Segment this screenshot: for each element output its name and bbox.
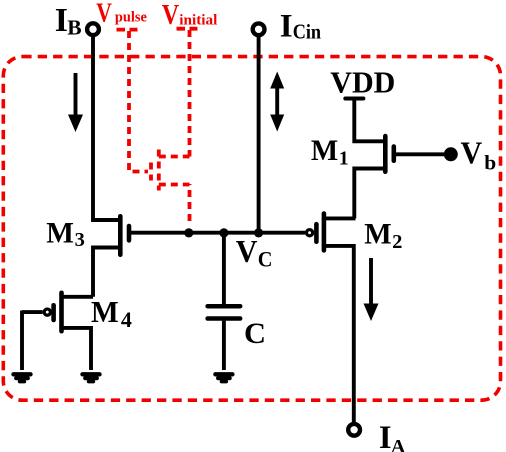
bottom wire bbox=[222, 321, 226, 370]
source stub + wire to ground bbox=[62, 328, 92, 370]
svg-text:V: V bbox=[162, 0, 179, 31]
channel bar M2 bbox=[322, 214, 327, 251]
channel bar M3 bbox=[118, 216, 123, 254]
gate wire to Vb bbox=[396, 152, 447, 156]
source wire down to VC bbox=[188, 184, 192, 221]
svg-text:C: C bbox=[244, 318, 266, 350]
capacitor C bbox=[208, 233, 241, 370]
svg-text:4: 4 bbox=[121, 307, 132, 332]
svg-text:initial: initial bbox=[179, 13, 217, 29]
current arrow IA bbox=[364, 258, 379, 321]
top wire bbox=[222, 233, 226, 304]
label Vb bbox=[461, 135, 497, 174]
Vpulse dashed wire bbox=[117, 30, 149, 172]
terminal IA bbox=[348, 424, 360, 436]
top plate bbox=[208, 304, 241, 309]
dashed switch transistor (red) bbox=[151, 150, 190, 222]
svg-text:M: M bbox=[311, 135, 338, 167]
svg-text:1: 1 bbox=[339, 148, 349, 170]
svg-text:M: M bbox=[46, 218, 74, 250]
drain stub bbox=[159, 155, 190, 159]
drain wire from VDD + stub bbox=[354, 99, 385, 142]
terminal ICin bbox=[253, 23, 265, 35]
label M1 bbox=[311, 135, 349, 169]
bottom plate bbox=[208, 316, 241, 321]
terminal Vb (dot) bbox=[444, 147, 458, 161]
node dot (red switch) bbox=[184, 228, 193, 237]
svg-text:Cin: Cin bbox=[293, 21, 322, 44]
source stub bbox=[159, 183, 190, 187]
terminal IB bbox=[87, 23, 99, 35]
VDD rail bar bbox=[345, 97, 363, 101]
drain wire + stub bbox=[93, 218, 120, 220]
svg-text:B: B bbox=[67, 16, 81, 40]
transistor M2 bbox=[307, 214, 356, 424]
svg-text:3: 3 bbox=[75, 229, 85, 251]
node dot (capacitor) bbox=[219, 228, 228, 237]
gate bar M3 bbox=[127, 226, 132, 240]
drain stub bbox=[324, 216, 356, 220]
label ICin bbox=[280, 8, 322, 44]
source stub + wire down bbox=[93, 248, 120, 297]
gate-left wire to ground bbox=[20, 311, 24, 371]
label Vpulse bbox=[96, 0, 147, 27]
drain stub M4 bbox=[62, 295, 94, 299]
channel bar bbox=[157, 150, 161, 191]
ground (M4 gate) bbox=[14, 374, 31, 381]
label Vinitial bbox=[162, 0, 218, 31]
svg-text:I: I bbox=[280, 8, 293, 44]
gate bar M4 bbox=[51, 305, 56, 320]
transistor M1 bbox=[354, 99, 446, 219]
source stub + wire down to M2 bbox=[354, 169, 385, 219]
gate bar M1 bbox=[391, 147, 396, 161]
svg-text:V: V bbox=[236, 233, 258, 269]
bidirectional current arrow ICin bbox=[270, 72, 284, 132]
svg-text:V: V bbox=[96, 0, 112, 27]
ground (M4 source) bbox=[83, 374, 100, 381]
ground (capacitor) bbox=[215, 374, 232, 381]
label VC bbox=[236, 233, 273, 271]
svg-text:VDD: VDD bbox=[330, 65, 395, 100]
label IA bbox=[379, 420, 406, 452]
Vinitial dashed wire bbox=[177, 29, 198, 157]
gate wire from left bbox=[22, 310, 43, 314]
svg-text:M: M bbox=[91, 295, 119, 329]
gate bar bbox=[149, 163, 153, 181]
gate bar M2 bbox=[314, 224, 319, 242]
label M2 bbox=[364, 219, 402, 253]
dashed boundary box bbox=[3, 57, 500, 401]
channel bar M1 bbox=[383, 136, 388, 172]
svg-text:C: C bbox=[258, 247, 273, 272]
label IB bbox=[55, 2, 82, 40]
gate bubble M2 bbox=[307, 230, 313, 236]
wire ICin vertical bbox=[257, 35, 261, 233]
svg-text:M: M bbox=[364, 219, 391, 251]
node dot (ICin) bbox=[254, 228, 263, 237]
svg-text:A: A bbox=[391, 436, 406, 452]
svg-text:2: 2 bbox=[392, 231, 402, 253]
svg-text:pulse: pulse bbox=[115, 9, 147, 25]
channel bar M4 bbox=[59, 293, 64, 331]
svg-text:I: I bbox=[55, 2, 68, 39]
svg-text:V: V bbox=[461, 135, 483, 170]
current arrow IB bbox=[68, 73, 83, 132]
gate bubble M4 bbox=[44, 309, 50, 315]
label M4 bbox=[91, 295, 132, 332]
wire IB vertical bbox=[91, 35, 95, 220]
svg-text:b: b bbox=[484, 150, 496, 174]
transistor M3 bbox=[93, 216, 129, 296]
transistor M4 bbox=[22, 293, 93, 370]
source stub + wire down bbox=[324, 246, 354, 423]
label M3 bbox=[46, 218, 85, 251]
svg-text:I: I bbox=[379, 420, 392, 452]
VC node wire bbox=[131, 231, 306, 235]
